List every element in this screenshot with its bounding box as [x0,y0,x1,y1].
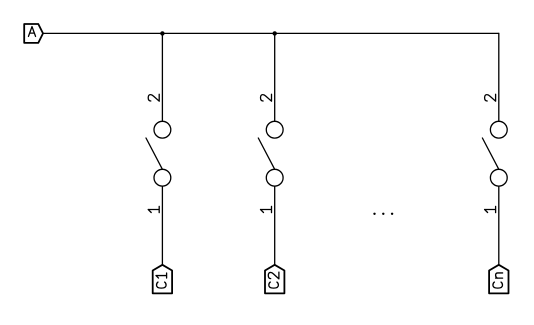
pin 1 label of SW1 [148,206,159,212]
net label A [24,24,43,43]
net label C1 [153,265,172,294]
junction at branch 2 [273,31,277,35]
wire net A horizontal bus [43,32,499,34]
pin 2 label of SW1 [148,94,159,101]
switch SW1 [146,121,171,186]
pin 1 label of SWn [485,206,496,212]
wire branch 2 upper [274,33,276,121]
wire branch 1 upper [161,33,163,121]
pin 1 label of SW2 [261,206,272,212]
pin 2 label of SWn [485,94,496,101]
switch SWn [482,121,507,186]
switch SW2 [258,121,283,186]
net label C2 [265,265,284,294]
wire branch 2 lower [274,186,276,265]
net label Cn [489,265,508,294]
wire branch 1 lower [161,186,163,265]
junction at branch 1 [160,31,164,35]
wire branch n lower [498,186,500,265]
wire branch n upper (corner at bus) [498,33,500,121]
ellipsis dots [373,213,393,215]
pin 2 label of SW2 [261,94,272,101]
